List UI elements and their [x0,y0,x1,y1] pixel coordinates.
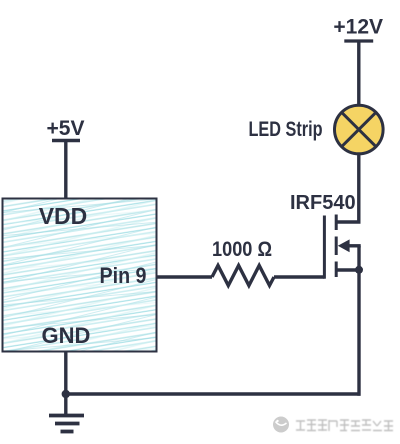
svg-text:+12V: +12V [333,16,383,39]
svg-text:IRF540: IRF540 [290,192,356,214]
wire resistor to gate [274,275,324,278]
wire lamp to +12V [357,41,360,105]
wire source to bottom rail [357,246,360,396]
ground [49,394,84,432]
wire Pin 9 to resistor [156,275,212,278]
svg-text:LED Strip: LED Strip [249,118,323,141]
watermark text 玩转单片机与嵌入式 [296,420,393,431]
svg-text:GND: GND [42,323,91,348]
lamp LED strip [335,105,384,154]
svg-text:Pin 9: Pin 9 [100,263,147,288]
IC U1 microcontroller block [3,199,157,352]
wire GND to ground [64,352,67,395]
svg-text:VDD: VDD [39,203,88,229]
wire +5V to VDD [64,141,67,201]
transistor Q1 IRF540 MOSFET [324,154,363,279]
svg-text:1000 Ω: 1000 Ω [212,238,272,261]
power +12V [333,16,383,42]
wire bottom rail [66,392,361,395]
node junction ground [62,390,70,398]
resistor R1 1000 ohm [212,266,274,286]
svg-text:+5V: +5V [47,117,85,140]
power +5V [47,117,85,141]
watermark logo icon [273,417,289,433]
